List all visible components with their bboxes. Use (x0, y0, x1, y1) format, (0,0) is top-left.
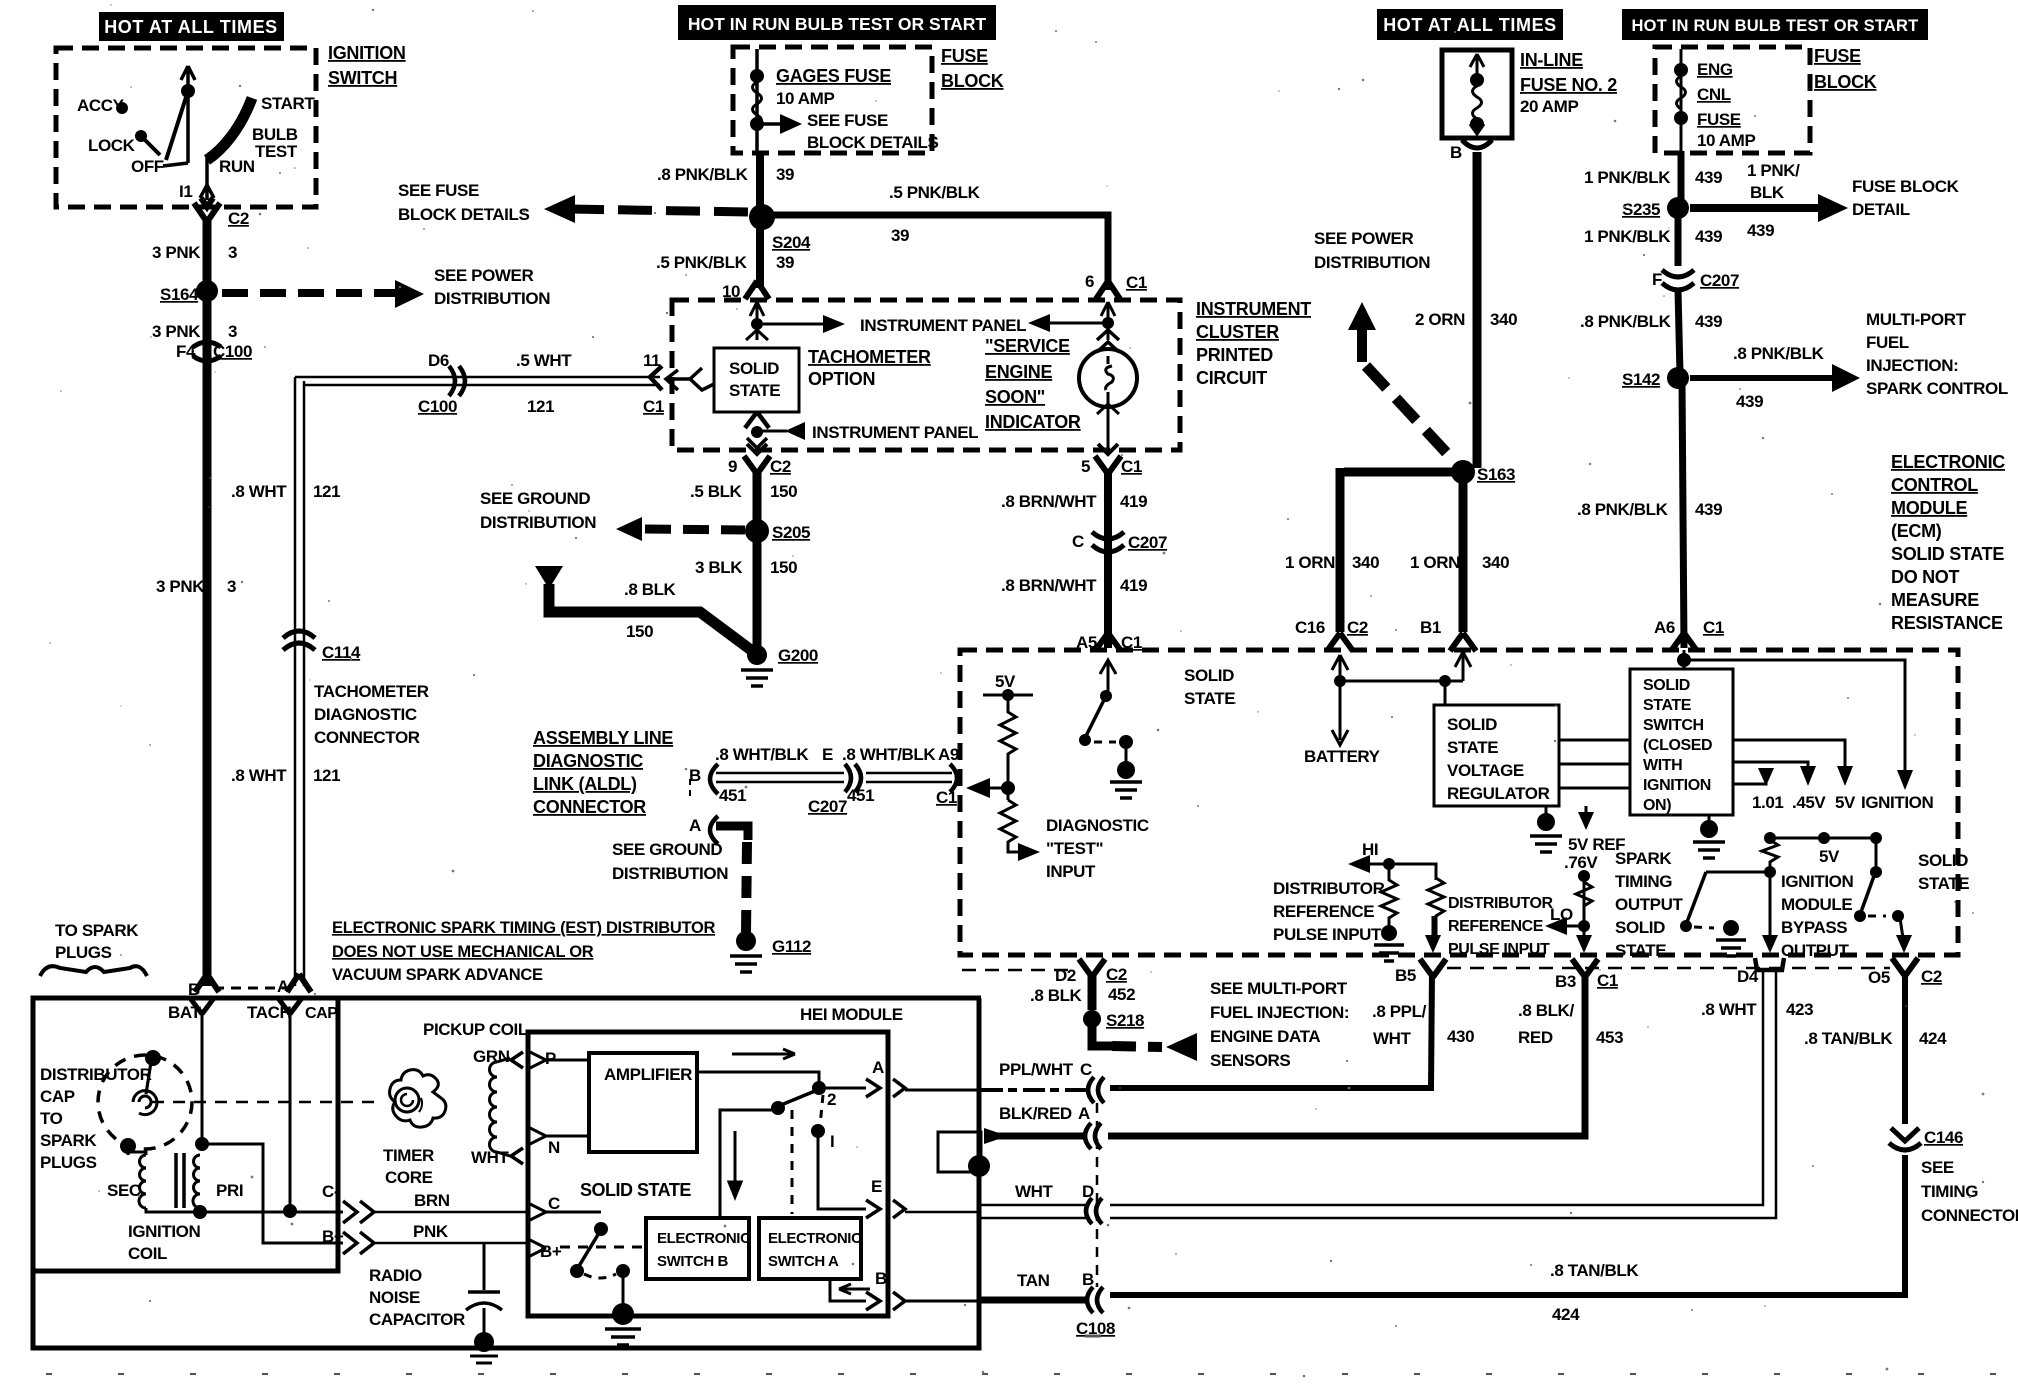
svg-text:BLOCK DETAILS: BLOCK DETAILS (807, 133, 938, 152)
svg-text:439: 439 (1747, 221, 1774, 240)
svg-text:C1: C1 (1703, 618, 1724, 637)
svg-text:C1: C1 (1597, 971, 1618, 990)
svg-text:3 PNK: 3 PNK (156, 577, 205, 596)
svg-text:OUTPUT: OUTPUT (1781, 941, 1850, 960)
svg-text:RESISTANCE: RESISTANCE (1891, 613, 2003, 633)
svg-text:CONNECTOR: CONNECTOR (533, 797, 646, 817)
svg-text:B3: B3 (1555, 972, 1576, 991)
svg-text:CONNECTOR: CONNECTOR (314, 728, 420, 747)
svg-text:.8 BRN/WHT: .8 BRN/WHT (1001, 576, 1097, 595)
svg-text:.5 PNK/BLK: .5 PNK/BLK (889, 183, 981, 202)
svg-text:C100: C100 (418, 397, 457, 416)
svg-text:GAGES FUSE: GAGES FUSE (776, 66, 891, 86)
svg-text:150: 150 (770, 558, 797, 577)
svg-text:DIAGNOSTIC: DIAGNOSTIC (533, 751, 643, 771)
svg-text:CORE: CORE (385, 1168, 433, 1187)
svg-text:SEE FUSE: SEE FUSE (398, 181, 479, 200)
svg-text:START: START (261, 94, 315, 113)
svg-text:A9: A9 (938, 745, 959, 764)
svg-text:ENGINE: ENGINE (985, 362, 1053, 382)
svg-text:10 AMP: 10 AMP (776, 89, 834, 108)
svg-text:RED: RED (1518, 1028, 1553, 1047)
svg-text:.5 WHT: .5 WHT (516, 351, 572, 370)
svg-text:STATE: STATE (1615, 941, 1666, 960)
svg-text:BLOCK DETAILS: BLOCK DETAILS (398, 205, 529, 224)
svg-text:MEASURE: MEASURE (1891, 590, 1979, 610)
svg-text:WHT: WHT (471, 1148, 510, 1167)
svg-text:TAN: TAN (1017, 1271, 1050, 1290)
svg-text:39: 39 (891, 226, 909, 245)
svg-text:.8 BLK: .8 BLK (624, 580, 677, 599)
svg-text:G112: G112 (772, 937, 811, 956)
svg-text:DO NOT: DO NOT (1891, 567, 1960, 587)
svg-text:DISTRIBUTION: DISTRIBUTION (434, 289, 550, 308)
svg-text:A6: A6 (1654, 618, 1675, 637)
svg-text:439: 439 (1695, 168, 1722, 187)
svg-text:C1: C1 (1121, 633, 1142, 652)
svg-text:.5 PNK/BLK: .5 PNK/BLK (656, 253, 748, 272)
svg-text:C: C (1072, 532, 1084, 551)
svg-text:DIAGNOSTIC: DIAGNOSTIC (314, 705, 417, 724)
svg-text:SENSORS: SENSORS (1210, 1051, 1290, 1070)
svg-text:ELECTRONIC SPARK TIMING (EST): ELECTRONIC SPARK TIMING (EST) DISTRIBUTO… (332, 919, 715, 937)
svg-text:G200: G200 (778, 646, 818, 665)
svg-text:451: 451 (719, 786, 746, 805)
svg-text:PPL/WHT: PPL/WHT (999, 1060, 1074, 1079)
svg-text:FUSE: FUSE (941, 46, 988, 66)
svg-text:439: 439 (1695, 312, 1722, 331)
svg-text:HEI MODULE: HEI MODULE (800, 1005, 903, 1024)
svg-text:39: 39 (776, 253, 794, 272)
svg-text:150: 150 (770, 482, 797, 501)
svg-text:INSTRUMENT PANEL: INSTRUMENT PANEL (812, 423, 978, 442)
svg-text:RUN: RUN (219, 157, 255, 176)
svg-text:CONNECTOR: CONNECTOR (1921, 1206, 2018, 1225)
svg-text:REFERENCE: REFERENCE (1448, 918, 1544, 935)
svg-text:IGNITION: IGNITION (1643, 777, 1711, 794)
svg-text:SOLID: SOLID (729, 359, 779, 378)
svg-text:10 AMP: 10 AMP (1697, 131, 1755, 150)
svg-text:121: 121 (313, 766, 340, 785)
svg-text:DISTRIBUTION: DISTRIBUTION (480, 513, 596, 532)
svg-text:BLK/RED: BLK/RED (999, 1104, 1072, 1123)
svg-text:I1: I1 (179, 182, 192, 201)
svg-text:C207: C207 (1700, 271, 1739, 290)
svg-text:MULTI-PORT: MULTI-PORT (1866, 310, 1967, 329)
svg-text:1 ORN: 1 ORN (1285, 553, 1335, 572)
svg-text:CLUSTER: CLUSTER (1196, 322, 1279, 342)
svg-text:BRN: BRN (414, 1191, 450, 1210)
svg-text:5V: 5V (995, 672, 1016, 691)
svg-text:FUEL INJECTION:: FUEL INJECTION: (1210, 1003, 1349, 1022)
svg-text:439: 439 (1695, 500, 1722, 519)
svg-text:C2: C2 (228, 209, 249, 228)
svg-text:1 PNK/: 1 PNK/ (1747, 161, 1800, 180)
svg-text:HOT AT ALL TIMES: HOT AT ALL TIMES (104, 17, 278, 37)
svg-text:D: D (1082, 1182, 1094, 1201)
svg-text:(CLOSED: (CLOSED (1643, 737, 1712, 754)
svg-text:LO: LO (1550, 905, 1573, 924)
svg-text:C2: C2 (770, 457, 791, 476)
svg-text:SWITCH: SWITCH (1643, 717, 1704, 734)
svg-text:S235: S235 (1622, 200, 1660, 219)
svg-text:S163: S163 (1477, 465, 1515, 484)
svg-text:STATE: STATE (1184, 689, 1235, 708)
svg-text:STATE: STATE (1643, 697, 1692, 714)
svg-text:B5: B5 (1395, 966, 1416, 985)
svg-text:10: 10 (722, 282, 740, 301)
svg-text:SOLID: SOLID (1184, 666, 1234, 685)
svg-text:SOLID STATE: SOLID STATE (1891, 544, 2004, 564)
svg-text:MODULE: MODULE (1891, 498, 1967, 518)
svg-text:CONTROL: CONTROL (1891, 475, 1978, 495)
svg-text:F: F (1652, 270, 1662, 289)
svg-text:ON): ON) (1643, 797, 1671, 814)
svg-text:.8 WHT: .8 WHT (1701, 1000, 1757, 1019)
svg-text:CNL: CNL (1697, 85, 1731, 104)
svg-text:S164: S164 (160, 285, 199, 304)
svg-text:CIRCUIT: CIRCUIT (1196, 368, 1267, 388)
svg-text:ENGINE DATA: ENGINE DATA (1210, 1027, 1320, 1046)
svg-text:C2: C2 (1347, 618, 1368, 637)
svg-text:PULSE INPUT: PULSE INPUT (1448, 941, 1550, 958)
svg-text:340: 340 (1490, 310, 1517, 329)
svg-text:DISTRIBUTION: DISTRIBUTION (612, 864, 728, 883)
svg-text:C146: C146 (1924, 1128, 1963, 1147)
svg-text:C16: C16 (1295, 618, 1325, 637)
svg-text:FUSE NO. 2: FUSE NO. 2 (1520, 75, 1617, 95)
svg-text:A: A (689, 816, 701, 835)
svg-text:I: I (830, 1132, 834, 1151)
svg-text:CAPACITOR: CAPACITOR (369, 1310, 465, 1329)
svg-text:FUSE: FUSE (1697, 110, 1741, 129)
svg-text:S142: S142 (1622, 370, 1660, 389)
svg-text:REGULATOR: REGULATOR (1447, 784, 1550, 803)
svg-text:FUEL: FUEL (1866, 333, 1909, 352)
svg-text:IGNITION: IGNITION (128, 1222, 200, 1241)
svg-text:SEE: SEE (1921, 1158, 1954, 1177)
svg-text:C2: C2 (1106, 965, 1127, 984)
svg-text:.8 WHT/BLK: .8 WHT/BLK (842, 745, 936, 764)
svg-text:3 PNK: 3 PNK (152, 322, 201, 341)
svg-text:DOES NOT USE MECHANICAL OR: DOES NOT USE MECHANICAL OR (332, 943, 594, 961)
svg-text:A: A (872, 1058, 884, 1077)
svg-text:SOLID: SOLID (1447, 715, 1497, 734)
svg-text:C: C (1080, 1060, 1092, 1079)
svg-text:A: A (1078, 1104, 1090, 1123)
svg-text:SOLID: SOLID (1643, 677, 1690, 694)
svg-text:IGNITION: IGNITION (1861, 793, 1933, 812)
svg-text:1 PNK/BLK: 1 PNK/BLK (1584, 168, 1671, 187)
svg-text:5: 5 (1081, 457, 1090, 476)
svg-text:IGNITION: IGNITION (1781, 872, 1853, 891)
svg-text:IGNITION: IGNITION (328, 43, 406, 63)
svg-text:LINK (ALDL): LINK (ALDL) (533, 774, 637, 794)
svg-text:B+: B+ (322, 1227, 344, 1246)
svg-text:.8 WHT: .8 WHT (231, 766, 287, 785)
svg-text:PULSE INPUT: PULSE INPUT (1273, 925, 1382, 944)
svg-text:LOCK: LOCK (88, 136, 136, 155)
svg-text:SEE GROUND: SEE GROUND (612, 840, 722, 859)
svg-text:C207: C207 (1128, 533, 1167, 552)
svg-text:D6: D6 (428, 351, 449, 370)
svg-text:INJECTION:: INJECTION: (1866, 356, 1958, 375)
svg-text:BATTERY: BATTERY (1304, 747, 1381, 766)
svg-text:439: 439 (1736, 392, 1763, 411)
svg-text:PNK: PNK (413, 1222, 449, 1241)
svg-text:C114: C114 (322, 643, 361, 662)
svg-text:PICKUP COIL: PICKUP COIL (423, 1020, 528, 1039)
svg-text:(ECM): (ECM) (1891, 521, 1942, 541)
svg-text:.8 PNK/BLK: .8 PNK/BLK (1580, 312, 1672, 331)
svg-text:B1: B1 (1420, 618, 1441, 637)
svg-text:S218: S218 (1106, 1011, 1144, 1030)
svg-text:ELECTRONIC: ELECTRONIC (1891, 452, 2005, 472)
svg-text:ELECTRONIC: ELECTRONIC (657, 1230, 751, 1247)
svg-text:STATE: STATE (1447, 738, 1498, 757)
svg-text:SWITCH A: SWITCH A (768, 1253, 839, 1270)
svg-text:1 ORN: 1 ORN (1410, 553, 1460, 572)
svg-text:SOON": SOON" (985, 387, 1045, 407)
svg-text:SWITCH: SWITCH (328, 68, 397, 88)
svg-text:STATE: STATE (1918, 874, 1969, 893)
svg-text:.8 PPL/: .8 PPL/ (1372, 1002, 1427, 1021)
svg-text:TEST: TEST (255, 142, 298, 161)
svg-text:SEE POWER: SEE POWER (1314, 229, 1413, 248)
svg-text:424: 424 (1919, 1029, 1947, 1048)
svg-text:HI: HI (1362, 840, 1378, 859)
svg-text:E: E (822, 745, 833, 764)
svg-text:REFERENCE: REFERENCE (1273, 902, 1374, 921)
svg-text:WHT: WHT (1373, 1029, 1412, 1048)
svg-text:SPARK CONTROL: SPARK CONTROL (1866, 379, 2008, 398)
svg-text:150: 150 (626, 622, 653, 641)
svg-text:INSTRUMENT: INSTRUMENT (1196, 299, 1311, 319)
svg-text:424: 424 (1552, 1305, 1580, 1324)
svg-text:TACHOMETER: TACHOMETER (314, 682, 429, 701)
svg-text:RADIO: RADIO (369, 1266, 422, 1285)
svg-text:20 AMP: 20 AMP (1520, 97, 1578, 116)
svg-text:SEE POWER: SEE POWER (434, 266, 533, 285)
svg-text:S205: S205 (772, 523, 810, 542)
svg-text:ASSEMBLY LINE: ASSEMBLY LINE (533, 728, 673, 748)
svg-text:SOLID: SOLID (1615, 918, 1665, 937)
svg-text:.8 BLK/: .8 BLK/ (1518, 1001, 1574, 1020)
svg-text:"TEST": "TEST" (1046, 839, 1103, 858)
svg-text:423: 423 (1786, 1000, 1813, 1019)
svg-text:.8 TAN/BLK: .8 TAN/BLK (1804, 1029, 1893, 1048)
svg-text:9: 9 (728, 457, 737, 476)
svg-text:.8 WHT/BLK: .8 WHT/BLK (715, 745, 809, 764)
svg-text:MODULE: MODULE (1781, 895, 1852, 914)
svg-text:PLUGS: PLUGS (55, 943, 112, 962)
svg-text:C1: C1 (1121, 457, 1142, 476)
svg-text:COIL: COIL (128, 1244, 167, 1263)
svg-text:PRINTED: PRINTED (1196, 345, 1273, 365)
svg-text:SEE FUSE: SEE FUSE (807, 111, 888, 130)
svg-text:C-: C- (322, 1182, 339, 1201)
svg-text:OPTION: OPTION (808, 369, 875, 389)
svg-text:"SERVICE: "SERVICE (985, 336, 1070, 356)
svg-text:SEC: SEC (107, 1181, 141, 1200)
svg-text:3: 3 (228, 243, 237, 262)
svg-text:SWITCH B: SWITCH B (657, 1253, 729, 1270)
svg-text:STATE: STATE (729, 381, 780, 400)
svg-text:.8 TAN/BLK: .8 TAN/BLK (1550, 1261, 1639, 1280)
svg-text:.8 WHT: .8 WHT (231, 482, 287, 501)
svg-text:WITH: WITH (1643, 757, 1682, 774)
svg-text:3 BLK: 3 BLK (695, 558, 743, 577)
svg-text:SOLID: SOLID (1918, 851, 1968, 870)
svg-text:1.01: 1.01 (1752, 793, 1784, 812)
svg-text:CAP: CAP (305, 1005, 338, 1022)
svg-text:HOT AT ALL TIMES: HOT AT ALL TIMES (1383, 15, 1557, 35)
svg-text:N: N (548, 1138, 560, 1157)
svg-text:BLOCK: BLOCK (941, 71, 1004, 91)
svg-text:DISTRIBUTION: DISTRIBUTION (1314, 253, 1430, 272)
svg-text:B: B (1082, 1270, 1094, 1289)
svg-text:C2: C2 (1921, 967, 1942, 986)
svg-text:340: 340 (1482, 553, 1509, 572)
svg-text:.8 BRN/WHT: .8 BRN/WHT (1001, 492, 1097, 511)
svg-text:39: 39 (776, 165, 794, 184)
svg-text:OFF: OFF (131, 157, 164, 176)
svg-text:452: 452 (1108, 985, 1135, 1004)
svg-text:.8 PNK/BLK: .8 PNK/BLK (1733, 344, 1825, 363)
svg-text:DETAIL: DETAIL (1852, 200, 1910, 219)
svg-text:SPARK: SPARK (40, 1131, 97, 1150)
svg-text:453: 453 (1596, 1028, 1623, 1047)
svg-text:ELECTRONIC: ELECTRONIC (768, 1230, 862, 1247)
svg-text:PLUGS: PLUGS (40, 1153, 97, 1172)
svg-text:FUSE BLOCK: FUSE BLOCK (1852, 177, 1960, 196)
svg-text:FUSE: FUSE (1814, 46, 1861, 66)
svg-text:419: 419 (1120, 576, 1147, 595)
svg-text:TIMING: TIMING (1615, 872, 1672, 891)
svg-text:.8 PNK/BLK: .8 PNK/BLK (657, 165, 749, 184)
svg-text:VACUUM SPARK ADVANCE: VACUUM SPARK ADVANCE (332, 966, 543, 984)
svg-text:BYPASS: BYPASS (1781, 918, 1847, 937)
svg-text:340: 340 (1352, 553, 1379, 572)
svg-text:E: E (871, 1177, 882, 1196)
svg-text:.8 PNK/BLK: .8 PNK/BLK (1577, 500, 1669, 519)
svg-text:C1: C1 (643, 397, 664, 416)
svg-text:3: 3 (228, 322, 237, 341)
svg-text:VOLTAGE: VOLTAGE (1447, 761, 1524, 780)
svg-text:.8 BLK: .8 BLK (1030, 986, 1083, 1005)
svg-text:HOT IN RUN BULB TEST OR START: HOT IN RUN BULB TEST OR START (688, 14, 986, 34)
svg-text:6: 6 (1085, 272, 1094, 291)
svg-text:C1: C1 (1126, 273, 1147, 292)
svg-text:.5 BLK: .5 BLK (690, 482, 743, 501)
svg-text:DISTRIBUTOR: DISTRIBUTOR (40, 1065, 152, 1084)
svg-text:B+: B+ (540, 1242, 562, 1261)
svg-text:1 PNK/BLK: 1 PNK/BLK (1584, 227, 1671, 246)
svg-text:2: 2 (827, 1090, 836, 1109)
svg-text:SEE GROUND: SEE GROUND (480, 489, 590, 508)
svg-text:DISTRIBUTOR: DISTRIBUTOR (1273, 879, 1385, 898)
svg-text:451: 451 (847, 786, 874, 805)
svg-text:.45V: .45V (1792, 793, 1826, 812)
svg-text:TO SPARK: TO SPARK (55, 921, 139, 940)
svg-text:WHT: WHT (1015, 1182, 1054, 1201)
svg-text:INDICATOR: INDICATOR (985, 412, 1081, 432)
svg-text:SPARK: SPARK (1615, 849, 1672, 868)
svg-text:CAP: CAP (40, 1087, 75, 1106)
svg-text:INPUT: INPUT (1046, 862, 1096, 881)
svg-text:B: B (1450, 143, 1462, 162)
svg-text:2 ORN: 2 ORN (1415, 310, 1465, 329)
svg-text:C207: C207 (808, 797, 847, 816)
svg-text:121: 121 (527, 397, 554, 416)
svg-text:TIMER: TIMER (383, 1146, 434, 1165)
svg-text:.76V: .76V (1564, 853, 1598, 872)
svg-text:439: 439 (1695, 227, 1722, 246)
svg-text:TACHOMETER: TACHOMETER (808, 347, 931, 367)
svg-text:B: B (875, 1269, 887, 1288)
svg-text:PRI: PRI (216, 1181, 243, 1200)
svg-text:INSTRUMENT PANEL: INSTRUMENT PANEL (860, 316, 1026, 335)
svg-text:5V: 5V (1819, 847, 1840, 866)
svg-text:SEE MULTI-PORT: SEE MULTI-PORT (1210, 979, 1348, 998)
svg-text:BLK: BLK (1750, 183, 1785, 202)
svg-text:S204: S204 (772, 233, 811, 252)
svg-text:419: 419 (1120, 492, 1147, 511)
svg-text:O5: O5 (1868, 968, 1890, 987)
svg-text:DISTRIBUTOR: DISTRIBUTOR (1448, 895, 1553, 912)
svg-text:AMPLIFIER: AMPLIFIER (604, 1065, 692, 1084)
svg-text:121: 121 (313, 482, 340, 501)
svg-text:ENG: ENG (1697, 60, 1733, 79)
svg-text:C: C (548, 1194, 560, 1213)
svg-text:5V: 5V (1835, 793, 1856, 812)
svg-text:OUTPUT: OUTPUT (1615, 895, 1684, 914)
svg-text:NOISE: NOISE (369, 1288, 420, 1307)
svg-text:TO: TO (40, 1109, 63, 1128)
svg-text:HOT IN RUN BULB TEST OR START: HOT IN RUN BULB TEST OR START (1632, 17, 1919, 35)
svg-text:BLOCK: BLOCK (1814, 72, 1877, 92)
svg-text:IN-LINE: IN-LINE (1520, 50, 1583, 70)
svg-text:SOLID STATE: SOLID STATE (580, 1180, 691, 1200)
svg-text:3 PNK: 3 PNK (152, 243, 201, 262)
svg-text:430: 430 (1447, 1027, 1474, 1046)
svg-text:DIAGNOSTIC: DIAGNOSTIC (1046, 816, 1149, 835)
svg-text:3: 3 (227, 577, 236, 596)
